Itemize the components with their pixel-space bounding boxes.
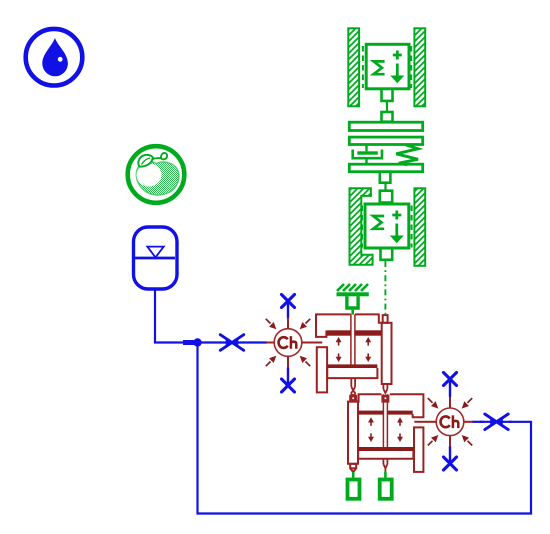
red line lower valve port to Ch2	[414, 421, 428, 423]
mass2 M label	[373, 216, 384, 229]
spool rod lower	[383, 394, 387, 447]
upper rod dome at lower valve left port	[351, 396, 355, 400]
lower hydraulic valve body	[348, 394, 423, 472]
orifice valve 2 (bowtie)	[480, 414, 512, 430]
zero force source port 1	[348, 480, 360, 499]
green stems to port blocks	[352, 472, 355, 478]
mass2 right wall	[414, 188, 425, 265]
lower valve middle rod bottom exit	[383, 459, 387, 472]
wire junction to orifice	[198, 341, 222, 343]
plug X below Ch1	[282, 368, 295, 392]
top-left step outline	[349, 394, 382, 401]
ground anchor above upper valve	[337, 284, 369, 315]
right sleeve	[382, 323, 392, 384]
top-left head outline	[316, 314, 351, 337]
upper valve bottom piston bar	[327, 364, 377, 368]
upper valve left chamber arrows	[336, 337, 342, 362]
mass1 M label	[374, 61, 385, 74]
zero force source port 2	[380, 480, 392, 499]
lower valve right chamber arrows	[397, 417, 403, 442]
wire junction down, bottom, right side up to orifice 2	[198, 343, 532, 514]
upper valve right chamber arrows	[365, 337, 371, 362]
mass2 side dashes	[361, 206, 363, 248]
mass2 plus	[392, 211, 401, 220]
red line Ch1 to upper valve port	[311, 342, 322, 344]
mass1 down arrow	[396, 64, 399, 77]
mass1 plus	[393, 51, 402, 60]
upper valve left rod lower part with tip	[351, 378, 355, 395]
plug X below Ch2	[444, 447, 457, 471]
green dash-dot link mass2 to valve	[384, 261, 386, 317]
upper valve piston head bars	[326, 330, 351, 335]
hydraulic chamber Ch2	[428, 398, 473, 447]
mass2 left wall bracket	[350, 188, 373, 264]
mechanical library icon (apple)	[128, 146, 185, 203]
mass1 side dashes	[362, 46, 364, 88]
upper valve flange	[327, 368, 377, 378]
mass1 bottom port square	[382, 90, 393, 101]
mechanical mass 1	[348, 28, 425, 121]
left sleeve	[348, 402, 358, 464]
middle rod chimney top	[382, 396, 388, 402]
plug X above Ch2	[444, 373, 457, 397]
junction node	[193, 338, 201, 346]
spring/damper plate 3	[349, 164, 422, 172]
left sleeve bottom chimney	[350, 464, 356, 469]
endstop plate 2	[349, 137, 422, 144]
left sleeve top chimney	[350, 396, 356, 402]
upper valve right sleeve lower tip	[383, 384, 387, 393]
top-right outline with step	[390, 394, 424, 417]
spring between plates	[396, 145, 418, 165]
upper hydraulic valve body	[316, 314, 392, 392]
mass2 body	[365, 204, 409, 248]
middle rod dome at lower valve port	[384, 396, 388, 400]
right sleeve top chimney	[383, 315, 388, 323]
lower valve bottom piston bar	[358, 447, 414, 451]
mass1 right wall	[414, 28, 425, 106]
endstop plate 1	[349, 122, 422, 130]
spool rod upper	[351, 314, 355, 364]
top-right outline with step	[355, 314, 382, 322]
wire thick segment before junction	[183, 340, 194, 345]
left sleeve	[317, 347, 327, 392]
orifice valve 1 (bowtie)	[220, 335, 243, 351]
plug X above Ch1	[282, 295, 295, 319]
accumulator	[134, 227, 178, 289]
mass1 body	[366, 44, 409, 89]
connector below plate3	[380, 172, 391, 191]
damper between plates	[353, 145, 382, 165]
mass2 down arrow	[395, 224, 398, 237]
wire accumulator to junction	[155, 289, 183, 343]
lower valve piston head bars	[358, 411, 383, 415]
hydraulic library icon (water drop)	[26, 29, 83, 86]
mass2 bottom port square	[381, 249, 393, 260]
mechanical mass 2	[350, 188, 426, 265]
right sleeve	[414, 427, 423, 472]
wire orifice2 to chamber Ch2	[472, 421, 484, 423]
lower valve flange	[358, 451, 413, 459]
hydraulic chamber Ch1	[266, 318, 311, 368]
lower valve left chamber arrows	[368, 417, 374, 442]
wire orifice to chamber Ch1	[243, 341, 267, 343]
mass2 top port square	[380, 191, 392, 203]
mass1 left wall	[348, 28, 359, 106]
